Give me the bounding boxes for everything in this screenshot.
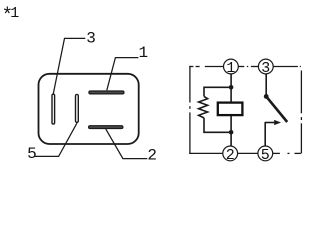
resistor R (199, 96, 208, 118)
junction dot lower (229, 130, 234, 135)
wire coil to terminal 2 (230, 116, 232, 147)
leader wire to pin 3 (53, 38, 85, 94)
leader wire to pin 1 (107, 58, 139, 91)
svg-text:3: 3 (86, 30, 96, 48)
switch pivot dot (264, 94, 269, 99)
armature arrow (265, 122, 275, 124)
leader wire to pin 2 (106, 129, 148, 159)
svg-text:2: 2 (147, 146, 157, 164)
svg-text:5: 5 (27, 145, 37, 163)
junction dot upper (229, 85, 234, 90)
pin 1 slot (89, 91, 124, 94)
wire resistor bottom to junction (204, 118, 231, 132)
terminal 1 (224, 59, 239, 74)
wire junction to resistor top (204, 87, 231, 96)
switch blade (266, 96, 287, 122)
terminal 5 (258, 146, 273, 161)
wire terminal 1 to coil (230, 74, 232, 103)
relay coil (218, 103, 243, 116)
pin 5 slot (76, 94, 79, 122)
svg-text:2: 2 (226, 147, 235, 164)
connector boundary, right edge (300, 71, 302, 154)
leader wire to pin 5 (35, 123, 77, 156)
terminal 2 (223, 146, 238, 161)
wire arrow to terminal 5 (264, 122, 266, 146)
pin 2 slot (89, 126, 123, 129)
pin 3 slot (52, 94, 55, 124)
wire terminal 3 to switch pivot (265, 74, 267, 97)
connector boundary, bottom edge (189, 152, 301, 154)
svg-text:1: 1 (10, 5, 19, 22)
relay body outline (39, 74, 139, 144)
terminal 3 (258, 59, 273, 74)
svg-text:1: 1 (139, 44, 149, 62)
connector boundary (dash-dot box), top edge (189, 66, 301, 68)
svg-text:5: 5 (261, 147, 270, 164)
connector boundary, left edge (189, 66, 191, 154)
